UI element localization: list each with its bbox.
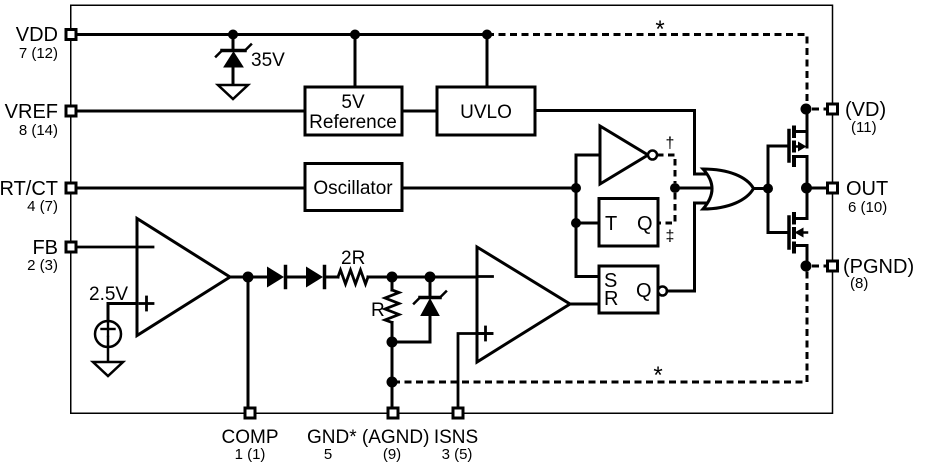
- wire UVLO output to OR gate top input: [535, 111, 706, 175]
- svg-text:GND* (AGND): GND* (AGND): [307, 427, 429, 448]
- wire node to OR gate middle input: [675, 187, 710, 190]
- svg-text:R: R: [371, 300, 385, 321]
- wire gate rail: [767, 146, 770, 233]
- wire comparator output to SR latch R input: [570, 303, 599, 306]
- svg-text:FB: FB: [32, 237, 58, 259]
- wire VREF rail: [77, 110, 305, 113]
- node OUT dot: [801, 183, 812, 194]
- node zener top junction: [425, 272, 436, 283]
- wire ISNS to comparator plus: [458, 334, 492, 408]
- svg-text:RT/CT: RT/CT: [0, 178, 58, 200]
- wire to T flip-flop input: [576, 188, 599, 223]
- svg-text:ISNS: ISNS: [434, 427, 478, 448]
- pin VDD: [66, 30, 76, 40]
- node COMP junction: [243, 272, 254, 283]
- svg-text:UVLO: UVLO: [460, 102, 512, 123]
- svg-text:2.5V: 2.5V: [89, 284, 128, 305]
- inverter U-inv: [600, 126, 648, 184]
- wire VDD to 5Vref: [354, 39, 357, 87]
- wire down to COMP pin: [247, 277, 250, 407]
- svg-text:OUT: OUT: [846, 178, 888, 200]
- wire Oscillator output: [402, 187, 576, 190]
- svg-text:Oscillator: Oscillator: [313, 178, 393, 199]
- svg-text:Q: Q: [636, 280, 652, 302]
- wire 5Vref to UVLO: [402, 110, 437, 113]
- IC boundary box: [71, 5, 833, 413]
- zener diode 35V: [216, 35, 251, 86]
- pin ISNS: [453, 408, 463, 418]
- pin GND: [388, 408, 398, 418]
- svg-text:T: T: [605, 213, 617, 235]
- node AGND dashed junction: [387, 377, 398, 388]
- node oscillator branch: [571, 183, 581, 193]
- block Oscillator: [305, 164, 402, 211]
- svg-text:VDD: VDD: [16, 24, 58, 46]
- node VDD-UVLO junction: [482, 30, 492, 40]
- svg-text:(8): (8): [850, 275, 868, 292]
- node T input junction: [571, 218, 581, 228]
- svg-text:2 (3): 2 (3): [27, 257, 58, 274]
- wire VDD rail: [77, 33, 487, 36]
- svg-text:5V: 5V: [341, 92, 365, 113]
- wire down to dashed node: [391, 342, 394, 407]
- wire dashed VD dot to pin: [812, 108, 827, 111]
- block 5V Reference U-ref: [305, 87, 402, 135]
- wire VDD to UVLO: [486, 39, 489, 87]
- resistor 2R: [338, 270, 368, 284]
- op-amp error amplifier: [137, 219, 230, 336]
- node R top junction: [387, 272, 398, 283]
- svg-text:3 (5): 3 (5): [442, 446, 473, 463]
- node PGND dot: [801, 261, 812, 272]
- transistor Q1 upper MOSFET: [789, 114, 807, 183]
- svg-text:VREF: VREF: [5, 101, 58, 123]
- svg-text:*: *: [653, 362, 662, 389]
- svg-text:(11): (11): [851, 119, 877, 136]
- wire upper gate stub: [768, 145, 787, 148]
- wire SR Qbar to OR gate bottom input: [667, 203, 706, 291]
- pin COMP: [245, 408, 255, 418]
- svg-text:7 (12): 7 (12): [19, 45, 58, 62]
- pin PGND: [828, 261, 838, 271]
- svg-text:6 (10): 6 (10): [848, 199, 887, 216]
- wire lower gate stub: [768, 231, 787, 234]
- OR gate U-or: [703, 169, 754, 209]
- comparator U-cs: [477, 247, 570, 362]
- wire OR output: [754, 187, 769, 190]
- node R bottom junction: [387, 337, 398, 348]
- plus sign error amp: [140, 297, 153, 310]
- svg-text:†: †: [666, 135, 675, 152]
- svg-text:1 (1): 1 (1): [235, 446, 266, 463]
- wire FB rail: [77, 246, 153, 249]
- wire dashed inverter out to node: [657, 155, 675, 183]
- svg-text:COMP: COMP: [222, 427, 279, 448]
- wire error amp output: [230, 276, 267, 279]
- wire dashed PGND dot to pin: [812, 265, 827, 268]
- node VD dot: [801, 104, 812, 115]
- pin FB: [66, 242, 76, 252]
- ground below 2.5V source: [93, 362, 123, 376]
- wire dashed node to T flip-flop Q: [658, 193, 675, 223]
- block T flip-flop: [599, 199, 658, 247]
- diode D2: [306, 267, 338, 288]
- plus sign comparator: [480, 327, 493, 340]
- diode D1: [267, 267, 306, 288]
- zener diode lower: [414, 277, 446, 342]
- pin VD: [828, 104, 838, 114]
- wire OUT dot to pin: [807, 187, 828, 190]
- node VDD-5Vref junction: [350, 30, 360, 40]
- wire to SR latch S input: [576, 223, 599, 277]
- resistor R vertical: [385, 277, 399, 342]
- svg-text:‡: ‡: [666, 228, 675, 245]
- svg-text:Reference: Reference: [309, 112, 397, 133]
- block SR latch: [599, 266, 658, 313]
- svg-text:35V: 35V: [251, 50, 285, 71]
- pin RT/CT: [66, 183, 76, 193]
- wire source to ground: [107, 347, 110, 362]
- svg-text:4 (7): 4 (7): [27, 198, 58, 215]
- svg-text:(9): (9): [383, 446, 401, 463]
- node OR middle input junction: [670, 183, 680, 193]
- wire RT/CT rail: [77, 187, 305, 190]
- wire VDD dashed to VD: [487, 35, 807, 105]
- svg-text:8 (14): 8 (14): [19, 122, 58, 139]
- pin VREF: [66, 106, 76, 116]
- node gate drive junction: [763, 184, 773, 194]
- wire dashed PGND down to bottom rail: [392, 272, 807, 383]
- pin OUT: [828, 183, 838, 193]
- svg-text:*: *: [655, 16, 664, 43]
- voltage source 2.5V: [95, 321, 121, 347]
- wire 2R to comparator minus: [368, 276, 492, 279]
- wire zener bottom to R bottom: [392, 341, 430, 344]
- svg-text:5: 5: [324, 446, 332, 463]
- block UVLO: [437, 87, 535, 135]
- svg-text:R: R: [604, 288, 618, 310]
- wire to inverter input: [576, 155, 600, 188]
- ground below 35V zener: [218, 85, 248, 99]
- node VDD-zener junction: [228, 30, 238, 40]
- svg-text:2R: 2R: [341, 248, 365, 269]
- wire 2.5V to plus input: [108, 304, 137, 322]
- transistor Q2 lower MOSFET: [789, 193, 807, 261]
- svg-text:Q: Q: [637, 213, 653, 235]
- SR latch Qbar bubble: [658, 287, 667, 296]
- svg-text:(VD): (VD): [845, 99, 886, 121]
